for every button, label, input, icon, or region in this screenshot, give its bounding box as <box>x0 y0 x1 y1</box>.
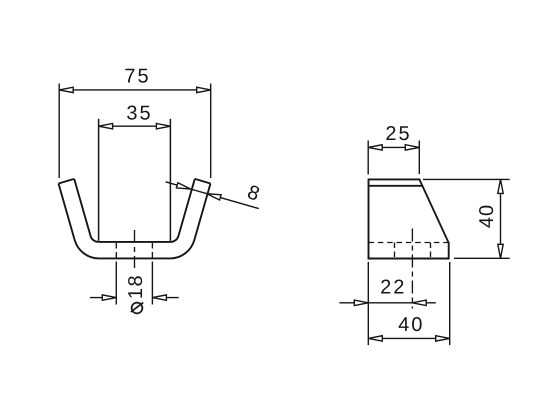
dimension Ø18 <box>90 262 179 305</box>
arrowhead bottom <box>498 244 503 258</box>
extension line right <box>151 262 153 305</box>
arrowhead right <box>156 124 170 129</box>
dimension line <box>59 89 211 91</box>
dimension line <box>500 179 502 258</box>
extension line left <box>58 84 60 179</box>
arrowhead left <box>368 336 382 341</box>
U-strap outline (front view) <box>59 119 211 259</box>
inner bottom line <box>98 241 170 243</box>
arrowhead right <box>152 295 166 300</box>
dimension line with outside tail <box>339 302 412 304</box>
hole center line (side view) <box>411 229 413 309</box>
hidden hole edge left (side view) <box>394 243 396 259</box>
left arm cap <box>59 179 75 184</box>
dimension 35 <box>99 124 171 129</box>
hidden hole edge left (front view) <box>115 243 117 260</box>
center line of hole (front view) <box>134 230 136 268</box>
dimension line across arm <box>191 189 207 194</box>
text 75 <box>125 69 147 83</box>
text 22 <box>381 280 403 294</box>
right arm inner edge with fillet <box>171 179 195 242</box>
arrowhead right <box>197 87 211 92</box>
right arm outer edge with bottom fillet <box>170 184 211 259</box>
extension line left <box>115 262 117 305</box>
text Ø18 <box>128 276 143 313</box>
arrowhead at left edge <box>354 300 368 305</box>
extension line left <box>367 141 369 175</box>
right arm cap <box>195 179 211 184</box>
arrowhead at inner edge <box>176 183 190 189</box>
text 25 <box>386 126 408 140</box>
body outline <box>369 179 449 258</box>
arrowhead at center <box>412 300 426 305</box>
right slot wall <box>169 119 171 241</box>
dimension 40 (width) <box>368 262 449 345</box>
arrowhead left <box>368 145 382 150</box>
leader line right part <box>207 194 259 209</box>
dimension line <box>368 146 419 148</box>
arrowhead left <box>102 295 116 300</box>
arrowhead left <box>99 124 113 129</box>
left arm outer edge with bottom fillet <box>59 184 100 259</box>
tail right of center <box>412 302 436 304</box>
extension line right <box>418 141 420 175</box>
text 8 <box>248 186 259 200</box>
hidden hole edge right (front view) <box>151 243 153 260</box>
dimension 25 <box>368 141 419 175</box>
outer bottom line <box>99 257 170 259</box>
extension line right <box>449 262 451 345</box>
dimension tail right <box>152 297 178 299</box>
dimension 8 (arm thickness) <box>166 182 259 209</box>
extension line top <box>423 178 510 180</box>
extension line right <box>210 84 212 179</box>
extension line left <box>367 262 369 345</box>
left slot wall <box>98 119 100 241</box>
dimension line <box>99 125 171 127</box>
arrowhead right <box>405 145 419 150</box>
text 40 (width) <box>399 317 422 331</box>
side view body <box>369 179 449 258</box>
hidden hole edge right (side view) <box>430 243 432 259</box>
arrowhead left <box>59 87 73 92</box>
hidden line inner bottom (side view) <box>369 242 449 244</box>
text 35 <box>127 106 150 120</box>
dimension tail left <box>90 297 116 299</box>
arrowhead at outer edge <box>207 194 221 200</box>
left arm inner edge with fillet <box>74 179 98 242</box>
dimension 40 (height) <box>423 179 510 258</box>
dimension line <box>368 337 449 339</box>
dimension 22 <box>339 300 435 305</box>
leader line left part <box>166 182 191 189</box>
extension line bottom <box>454 257 510 259</box>
bend line <box>369 185 423 187</box>
arrowhead top <box>498 179 503 193</box>
dimension 75 <box>59 84 211 179</box>
text 40 (height) <box>479 206 493 228</box>
arrowhead right <box>436 336 450 341</box>
